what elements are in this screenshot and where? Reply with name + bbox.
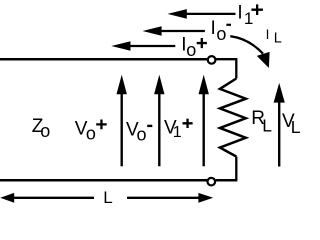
svg-text:L: L xyxy=(262,115,272,135)
svg-text:o: o xyxy=(216,24,226,44)
svg-text:1: 1 xyxy=(244,9,253,28)
svg-text:L: L xyxy=(103,188,112,207)
svg-text:o: o xyxy=(186,40,196,60)
svg-text:1: 1 xyxy=(173,124,182,141)
svg-text:I: I xyxy=(211,18,216,39)
svg-text:o: o xyxy=(86,123,96,143)
svg-text:L: L xyxy=(274,31,282,47)
svg-text:I: I xyxy=(266,27,270,42)
svg-text:o: o xyxy=(137,125,147,145)
svg-text:I: I xyxy=(237,3,242,24)
svg-text:o: o xyxy=(40,121,50,141)
svg-text:L: L xyxy=(291,117,300,137)
